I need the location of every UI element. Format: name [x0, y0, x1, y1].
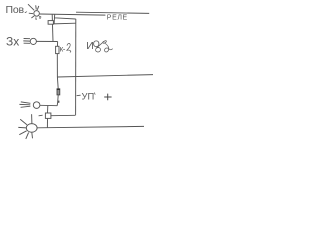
lamp L1 rays	[28, 4, 41, 20]
wire: K2 down to lamp line	[46, 118, 48, 127]
wire: K2 right to main vertical	[51, 114, 75, 116]
connector box K2	[45, 113, 51, 118]
wire: vertical drop from lamp line at x≈52	[51, 15, 54, 42]
label +	[104, 94, 111, 101]
fuse F1 box	[56, 46, 59, 53]
wire: vertical through fuse	[56, 42, 58, 54]
connector X1 circle	[30, 38, 36, 44]
connector box K1 on vertical wire	[48, 21, 53, 25]
svg-text:Зх: Зх	[6, 35, 19, 49]
wire: T drop to box K2	[47, 106, 49, 113]
wire: bottom long line	[37, 126, 144, 127]
junction blob	[58, 101, 60, 103]
node tick УП	[77, 94, 81, 97]
relay coil rectangle	[53, 15, 75, 24]
wire: long middle line	[57, 75, 153, 77]
svg-text:к-: к-	[60, 44, 66, 53]
lamp L2 ray tick	[39, 114, 43, 117]
connector X1 prongs	[23, 39, 30, 44]
wire: main right vertical	[75, 19, 77, 115]
lamp L2 rays	[18, 114, 32, 139]
svg-text:Пов.: Пов.	[6, 4, 27, 16]
wire: lamp feed line top (y≈14)	[40, 14, 106, 15]
svg-text:РЕЛЕ: РЕЛЕ	[107, 15, 128, 22]
lamp L1 circle	[34, 11, 40, 17]
wire: vertical below cartridge to corner	[57, 95, 58, 106]
lamp L2 circle	[26, 124, 37, 133]
component: dark cartridge on vertical wire	[57, 89, 60, 95]
connector X2 prongs	[19, 102, 30, 107]
label 2 (fancy)	[67, 43, 71, 52]
svg-text:УП: УП	[82, 90, 95, 101]
wire: relay bus line top (y≈12)	[76, 12, 149, 13]
apostrophe	[93, 93, 96, 95]
wire: horizontal to connector X2	[40, 104, 57, 106]
dot after Пов.	[26, 11, 27, 12]
wire: vertical continues to T junction	[56, 54, 59, 89]
label Д (fancy)	[96, 41, 113, 52]
connector X2 circle	[33, 102, 40, 109]
wire: connector X1 to junction	[36, 40, 57, 42]
